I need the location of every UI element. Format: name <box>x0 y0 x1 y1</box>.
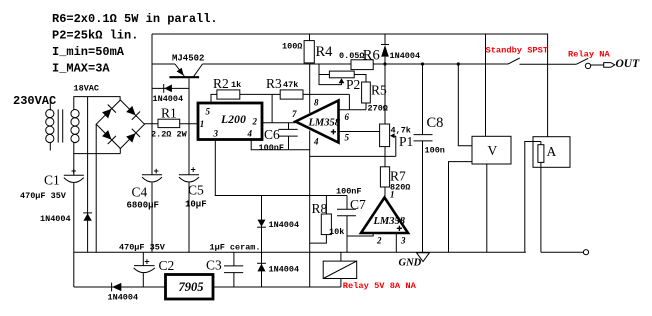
resistor R3 <box>280 90 303 99</box>
svg-text:C3: C3 <box>206 258 222 273</box>
svg-text:470µF 35V: 470µF 35V <box>119 243 166 253</box>
svg-text:R6=2x0.1Ω 5W in parall.: R6=2x0.1Ω 5W in parall. <box>52 12 218 26</box>
svg-text:C8: C8 <box>427 115 444 131</box>
svg-text:18VAC: 18VAC <box>74 84 100 94</box>
wire L200 pin4 route <box>251 140 310 150</box>
svg-text:230VAC: 230VAC <box>13 94 56 108</box>
voltmeter V <box>449 64 512 252</box>
svg-text:R3: R3 <box>266 76 282 91</box>
node C2 labels <box>119 243 174 274</box>
wire secondary bottom <box>74 142 121 154</box>
node D3 label <box>40 214 71 224</box>
svg-text:I_min=50mA: I_min=50mA <box>52 45 125 59</box>
node C5 labels <box>185 183 207 210</box>
L200 regulator U1 <box>198 103 262 140</box>
svg-text:1k: 1k <box>231 80 241 90</box>
capacitor C1 <box>64 154 84 287</box>
potentiometer P2 <box>319 64 366 85</box>
svg-text:47k: 47k <box>283 80 298 90</box>
node R3 labels <box>266 76 298 91</box>
relay RL1 coil <box>323 252 357 278</box>
svg-text:1N4004: 1N4004 <box>390 51 421 61</box>
svg-text:C1: C1 <box>44 173 60 188</box>
diode D2 1N4004 (top) <box>381 34 389 124</box>
diode D4 1N4004 (clamp upper) <box>257 196 266 288</box>
svg-text:100n: 100n <box>425 146 445 156</box>
transformer T1 <box>46 102 79 151</box>
capacitor C3 <box>224 252 243 287</box>
svg-text:6800µF: 6800µF <box>127 201 159 211</box>
svg-text:1N4004: 1N4004 <box>108 293 139 303</box>
wire opamp1 pin8 stub <box>309 64 311 113</box>
svg-text:1N4004: 1N4004 <box>269 265 300 275</box>
wire pin6 line <box>339 109 367 111</box>
svg-text:R2: R2 <box>213 76 229 91</box>
svg-text:1µF ceram.: 1µF ceram. <box>210 243 261 253</box>
node P1 labels <box>391 126 414 150</box>
wire collector bus to switch <box>203 63 509 65</box>
node C4 labels <box>127 185 159 211</box>
svg-text:1N4004: 1N4004 <box>153 94 184 104</box>
capacitor C5 <box>179 166 199 253</box>
capacitor C8 <box>414 64 433 252</box>
regulator U3 7905 <box>166 275 214 300</box>
svg-text:4: 4 <box>247 129 253 139</box>
svg-text:P1: P1 <box>399 134 413 149</box>
svg-text:5: 5 <box>206 107 211 117</box>
svg-text:OUT: OUT <box>616 58 641 70</box>
resistor R1 <box>158 119 180 127</box>
svg-text:R5: R5 <box>371 83 387 98</box>
wire C5 column <box>188 124 190 175</box>
svg-text:+: + <box>71 167 76 177</box>
svg-text:10µF: 10µF <box>185 200 207 210</box>
svg-text:V: V <box>488 143 498 158</box>
svg-text:R1: R1 <box>161 106 177 121</box>
svg-text:I_MAX=3A: I_MAX=3A <box>52 62 110 76</box>
node C6 labels <box>259 127 285 153</box>
wire opamp1 pin5 line <box>339 131 380 133</box>
resistor R4 <box>304 34 314 63</box>
wire switch feed / contacts <box>508 58 615 69</box>
wire emitter bus <box>152 63 175 65</box>
diode D3 1N4004 (negative supply) <box>83 97 92 253</box>
node R2 labels <box>213 76 241 91</box>
node GND label <box>399 258 422 269</box>
wire left rail (below C4) <box>151 183 153 252</box>
diode D6 1N4004 (series) <box>112 283 122 292</box>
wire L200 pin2 to opamp output <box>262 122 296 124</box>
node D5 label <box>269 265 300 275</box>
capacitor C4 <box>142 167 162 182</box>
svg-text:100nF: 100nF <box>259 143 285 153</box>
node 230VAC label <box>13 94 56 108</box>
node C8 labels <box>425 115 445 156</box>
svg-text:3: 3 <box>213 129 219 139</box>
wire left rail (upper) <box>151 34 153 175</box>
svg-text:P2=25kΩ lin.: P2=25kΩ lin. <box>52 29 138 43</box>
svg-text:L200: L200 <box>220 114 246 126</box>
bridge rectifier B1 <box>96 100 144 149</box>
svg-text:+: + <box>191 166 196 176</box>
svg-text:LM358: LM358 <box>373 216 406 227</box>
capacitor C2 <box>134 252 155 287</box>
node 18VAC label <box>74 84 100 94</box>
wire R2R3 to pin2 drop <box>271 94 273 122</box>
svg-text:LM358: LM358 <box>308 118 341 129</box>
node D4 label <box>269 220 300 230</box>
wire L200 pin5 <box>211 94 217 103</box>
svg-text:2.2Ω 2W: 2.2Ω 2W <box>151 130 188 140</box>
junction dots <box>383 62 460 65</box>
svg-text:100nF: 100nF <box>336 187 362 197</box>
wire opamp2 pin3 <box>395 233 397 252</box>
diode D1 1N4004 (base-emitter) <box>152 84 189 93</box>
wire V meter top drop <box>485 34 487 136</box>
node C3 labels <box>206 243 261 273</box>
svg-text:100Ω: 100Ω <box>282 41 302 51</box>
node header notes <box>52 12 218 76</box>
svg-text:8: 8 <box>314 97 319 107</box>
node R6 labels <box>339 48 380 64</box>
opamp U2B LM358 (up-pointing) <box>361 190 408 246</box>
node MJ4502 label <box>172 54 204 64</box>
node D1 label <box>153 94 184 104</box>
node D6 label <box>108 293 139 303</box>
node C7 labels <box>336 187 366 213</box>
svg-text:4: 4 <box>313 137 319 147</box>
svg-text:270Ω: 270Ω <box>368 104 388 114</box>
node R5 labels <box>368 83 388 114</box>
resistor R8 <box>310 196 332 244</box>
node R7 labels <box>390 169 410 193</box>
svg-text:1N4004: 1N4004 <box>40 214 71 224</box>
potentiometer P1 <box>380 124 396 167</box>
wire bridge bottom stub <box>119 149 121 154</box>
resistor R7 <box>380 167 389 197</box>
wire GND bus <box>74 251 526 253</box>
resistor R5 <box>362 82 371 110</box>
svg-text:3: 3 <box>400 236 406 246</box>
node D2 label <box>390 51 421 61</box>
node OUT label <box>616 58 641 70</box>
wire R2-R3 bus <box>217 93 350 95</box>
svg-text:A: A <box>547 144 557 159</box>
svg-text:R4: R4 <box>316 44 334 60</box>
svg-text:R8: R8 <box>312 201 328 216</box>
wire output minus to terminal <box>541 250 589 255</box>
svg-text:2: 2 <box>376 236 382 246</box>
node R8 labels <box>312 201 345 237</box>
svg-text:Relay 5V 8A NA: Relay 5V 8A NA <box>343 281 417 291</box>
wire lower route y156 <box>310 155 396 157</box>
wire opamp1 pin4 rail down <box>309 131 311 288</box>
svg-text:470µF 35V: 470µF 35V <box>20 191 67 201</box>
svg-text:1: 1 <box>200 119 205 129</box>
svg-text:+: + <box>154 167 159 177</box>
svg-text:P2: P2 <box>346 77 360 92</box>
svg-text:10k: 10k <box>329 227 344 237</box>
wire R3 to pin6 <box>348 94 350 109</box>
svg-text:0.05Ω: 0.05Ω <box>339 51 365 61</box>
svg-text:7: 7 <box>292 109 297 119</box>
node Standby SPST label <box>486 46 549 56</box>
ground symbol <box>417 253 430 262</box>
wire L200 pin3 route <box>215 140 347 196</box>
svg-text:C4: C4 <box>132 185 148 200</box>
svg-text:R7: R7 <box>390 169 406 184</box>
svg-text:Relay NA: Relay NA <box>568 49 610 59</box>
wire bridge output to R1 and L200 pin1 <box>145 123 199 125</box>
node relay label <box>343 281 417 291</box>
svg-text:Standby SPST: Standby SPST <box>486 46 549 56</box>
svg-text:R6: R6 <box>363 48 380 64</box>
svg-text:7905: 7905 <box>179 280 204 294</box>
svg-text:2: 2 <box>252 117 258 127</box>
svg-text:+: + <box>144 258 149 268</box>
opamp U2A LM358 (left-pointing) <box>292 97 350 146</box>
node R1 labels <box>151 106 188 140</box>
svg-text:820Ω: 820Ω <box>390 183 410 193</box>
wire base line <box>188 78 190 123</box>
node R4 labels <box>282 41 333 60</box>
wire opamp2 pin2 <box>347 233 373 236</box>
wire minus-5V bus <box>74 279 341 288</box>
svg-text:C7: C7 <box>350 197 366 212</box>
resistor R6 <box>351 60 373 70</box>
wire secondary top <box>74 97 120 110</box>
node C1 labels <box>20 173 67 202</box>
node Relay NA label <box>568 49 610 59</box>
svg-text:C6: C6 <box>264 127 280 142</box>
svg-text:C5: C5 <box>188 183 204 198</box>
resistor R2 <box>217 90 240 99</box>
svg-text:GND: GND <box>399 258 422 269</box>
wire bridge left rail down <box>95 124 97 252</box>
svg-text:1N4004: 1N4004 <box>269 220 300 230</box>
wire top bus <box>152 34 548 137</box>
svg-text:6: 6 <box>345 112 350 122</box>
diode D5 1N4004 (clamp lower) <box>257 263 266 271</box>
svg-text:C2: C2 <box>159 258 175 273</box>
node P2 label <box>346 77 360 92</box>
capacitor C6 <box>278 123 297 150</box>
svg-text:MJ4502: MJ4502 <box>172 54 204 64</box>
svg-text:5: 5 <box>345 133 350 143</box>
ammeter A with shunt <box>525 137 570 253</box>
capacitor C7 <box>337 196 356 253</box>
transistor Q1 MJ4502 <box>169 64 202 77</box>
